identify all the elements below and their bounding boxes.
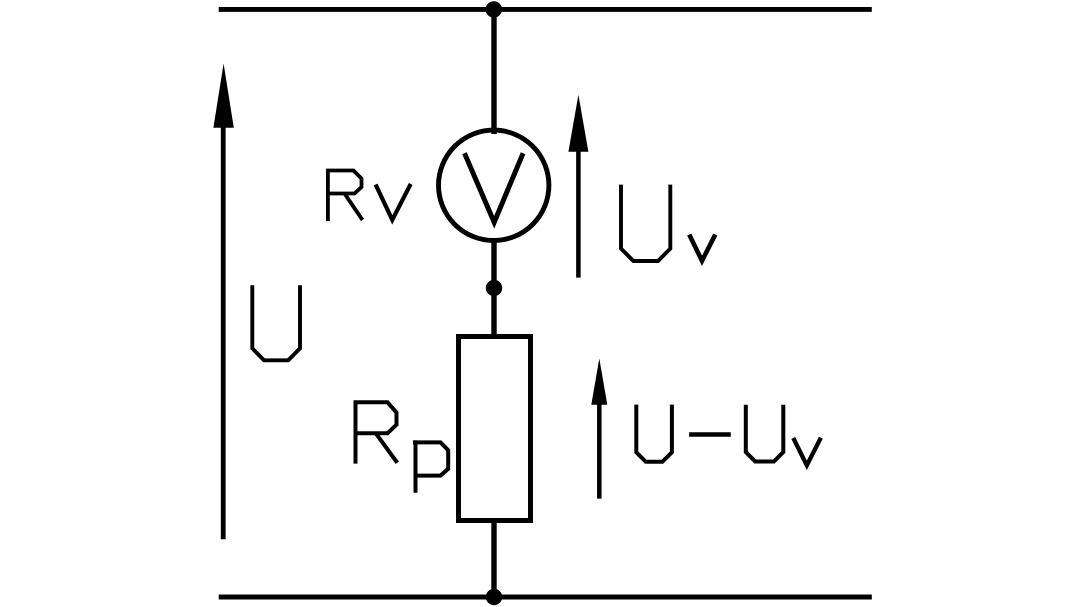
node: top junction bbox=[486, 1, 502, 17]
wire: resistor to bottom rail bbox=[491, 520, 496, 597]
wire: bottom rail bbox=[219, 595, 872, 600]
label Rv: letter R bbox=[328, 171, 363, 222]
node: mid junction bbox=[486, 280, 502, 296]
label U bbox=[252, 285, 300, 360]
voltmeter V (meter symbol circle) bbox=[439, 130, 549, 240]
wire: voltmeter to resistor bbox=[491, 240, 496, 337]
label Rp: letter R bbox=[356, 402, 398, 463]
arrow: voltage U (left, shaft) bbox=[221, 120, 226, 539]
node: bottom junction bbox=[486, 589, 502, 605]
label Rv: letter v bbox=[376, 184, 411, 220]
label U-Uv: minus sign bbox=[689, 432, 731, 436]
label Uv: subscript v bbox=[689, 235, 715, 261]
label Uv: letter U bbox=[621, 185, 670, 261]
arrow: Uv (shaft) bbox=[576, 145, 581, 278]
resistor Rp body bbox=[459, 337, 531, 521]
wire: top rail to voltmeter bbox=[491, 9, 496, 134]
label U-Uv: second letter U bbox=[746, 405, 784, 462]
voltmeter letter V bbox=[465, 153, 524, 222]
arrow: U minus Uv (head) bbox=[591, 359, 607, 405]
label U-Uv: first letter U bbox=[636, 405, 672, 462]
label U-Uv: subscript v bbox=[793, 438, 821, 466]
arrow: U minus Uv (shaft) bbox=[597, 400, 602, 499]
label Rp: subscript p bbox=[413, 440, 448, 493]
wire: top rail bbox=[219, 7, 872, 12]
arrow: Uv (head) bbox=[568, 95, 588, 152]
arrow: voltage U (left, head) bbox=[213, 64, 233, 128]
